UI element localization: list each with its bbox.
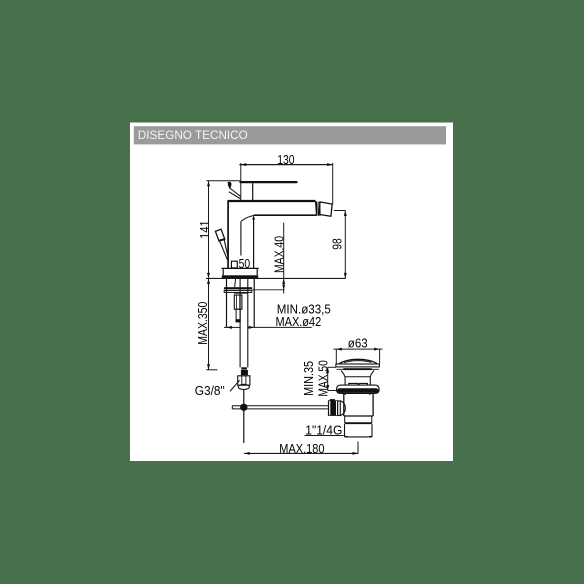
svg-text:141: 141 [197,220,212,239]
svg-text:ø63: ø63 [348,336,368,351]
svg-text:MAX.ø42: MAX.ø42 [276,314,322,329]
svg-text:MAX.180: MAX.180 [279,441,324,456]
svg-text:MAX.350: MAX.350 [195,302,210,345]
svg-text:DISEGNO TECNICO: DISEGNO TECNICO [138,130,248,142]
svg-text:MIN.35: MIN.35 [301,361,316,396]
svg-text:98: 98 [330,238,345,250]
svg-text:G3/8": G3/8" [195,383,225,398]
